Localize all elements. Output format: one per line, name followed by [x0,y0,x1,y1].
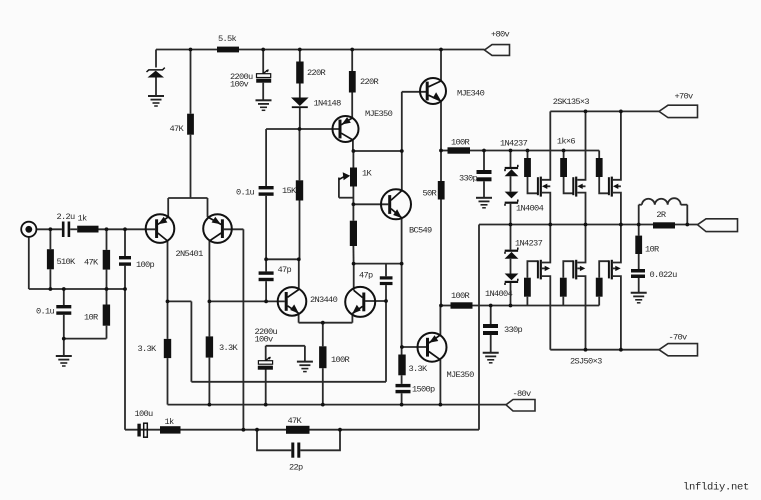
svg-text:BC549: BC549 [409,226,432,236]
svg-text:MJE340: MJE340 [457,89,485,99]
svg-text:-70v: -70v [669,333,688,343]
svg-text:+70v: +70v [675,92,694,102]
svg-text:-80v: -80v [513,389,532,399]
svg-text:220R: 220R [360,77,379,87]
svg-text:10R: 10R [84,313,98,323]
svg-text:100R: 100R [331,355,350,365]
svg-text:100v: 100v [255,335,274,345]
svg-text:100p: 100p [136,260,155,270]
svg-text:100u: 100u [135,409,154,419]
svg-text:5.5k: 5.5k [218,34,237,44]
svg-text:220R: 220R [307,68,326,78]
svg-text:0.1u: 0.1u [36,307,55,317]
svg-text:330p: 330p [459,174,478,184]
svg-text:1k: 1k [78,214,88,224]
svg-text:+80v: +80v [491,30,510,40]
svg-text:1k×6: 1k×6 [557,137,576,147]
svg-text:1K: 1K [362,169,373,179]
svg-text:3.3K: 3.3K [409,364,429,374]
svg-text:0.1u: 0.1u [236,188,255,198]
svg-text:1500p: 1500p [412,385,435,395]
svg-text:3.3K: 3.3K [219,343,239,353]
svg-text:22p: 22p [289,463,303,473]
svg-text:1N4004: 1N4004 [485,289,513,299]
svg-text:lnfldiy.net: lnfldiy.net [683,482,749,494]
svg-text:100R: 100R [451,291,470,301]
svg-text:2SJ50×3: 2SJ50×3 [570,357,602,367]
svg-text:MJE350: MJE350 [447,370,475,380]
svg-text:50R: 50R [423,189,437,199]
svg-text:2N5401: 2N5401 [176,249,204,259]
svg-text:1N4148: 1N4148 [314,99,342,109]
svg-text:510K: 510K [57,257,77,267]
svg-text:1N4237: 1N4237 [500,139,528,149]
svg-text:47K: 47K [84,258,99,268]
svg-text:47K: 47K [288,416,303,426]
svg-text:MJE350: MJE350 [365,109,393,119]
svg-text:1N4004: 1N4004 [516,204,544,214]
svg-text:330p: 330p [504,325,523,335]
svg-text:2.2u: 2.2u [57,212,76,222]
svg-text:0.022u: 0.022u [650,270,678,280]
svg-text:2SK135×3: 2SK135×3 [553,97,590,107]
svg-text:2R: 2R [656,210,666,220]
svg-text:100R: 100R [451,138,470,148]
svg-text:47p: 47p [359,271,373,281]
svg-text:10R: 10R [645,245,659,255]
svg-text:1N4237: 1N4237 [515,239,543,249]
svg-text:2N3440: 2N3440 [310,295,338,305]
svg-text:15K: 15K [282,186,297,196]
svg-text:47p: 47p [278,265,292,275]
svg-text:100v: 100v [230,80,249,90]
svg-text:3.3K: 3.3K [138,344,158,354]
svg-text:47K: 47K [170,124,185,134]
svg-text:1k: 1k [165,417,175,427]
